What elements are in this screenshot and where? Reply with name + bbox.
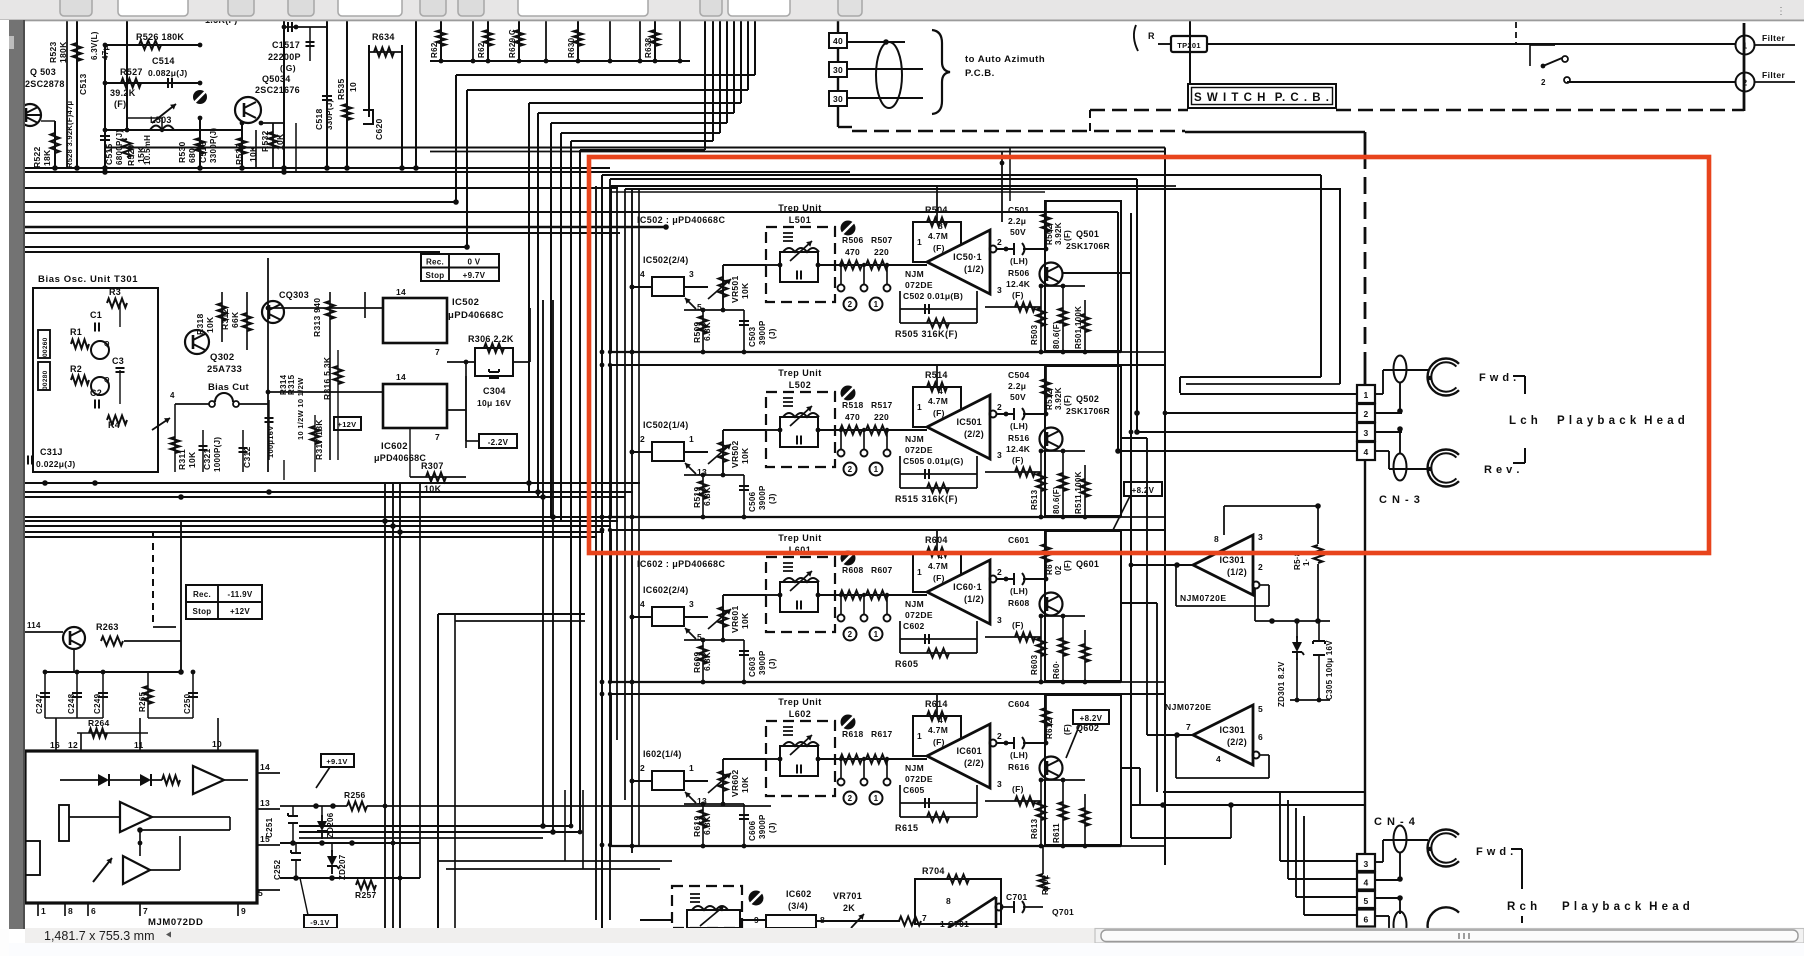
svg-text:6.8K: 6.8K (702, 651, 712, 671)
svg-text:8: 8 (68, 906, 73, 916)
svg-text:VR501: VR501 (730, 276, 740, 304)
svg-text:Q 503: Q 503 (30, 67, 56, 77)
svg-text:10μ 16V: 10μ 16V (477, 398, 511, 408)
svg-text:R2: R2 (70, 364, 82, 374)
svg-text:R523: R523 (48, 41, 58, 63)
svg-text:6.3V(L): 6.3V(L) (90, 31, 99, 60)
svg-text:IC502(2/4): IC502(2/4) (643, 255, 689, 265)
svg-text:3900P: 3900P (758, 814, 767, 839)
svg-text:(F): (F) (933, 737, 945, 747)
svg-text:C605: C605 (903, 785, 925, 795)
svg-text:R516: R516 (1008, 433, 1030, 443)
svg-text:7: 7 (143, 906, 148, 916)
svg-text:0.022μ(J): 0.022μ(J) (36, 459, 76, 469)
svg-text:R519: R519 (692, 486, 702, 508)
svg-text:3: 3 (1363, 859, 1368, 869)
svg-text:4: 4 (640, 599, 645, 609)
svg-text:-2.2V: -2.2V (488, 438, 509, 447)
svg-text:3300P(J): 3300P(J) (209, 128, 218, 163)
svg-text:R e v .: R e v . (1484, 464, 1520, 476)
svg-text:R608: R608 (842, 565, 864, 575)
svg-text:R62: R62 (477, 42, 486, 58)
svg-text:C304: C304 (483, 386, 506, 396)
svg-text:(1/2): (1/2) (964, 264, 984, 274)
svg-text:1: 1 (874, 630, 879, 639)
svg-text:R503: R503 (1030, 324, 1039, 345)
svg-text:Rec.: Rec. (426, 258, 444, 267)
svg-text:4: 4 (1363, 878, 1368, 888)
svg-text:2SC2878: 2SC2878 (25, 79, 65, 89)
svg-text:C513: C513 (78, 73, 88, 95)
svg-text:ZD301 8.2V: ZD301 8.2V (1277, 661, 1286, 707)
svg-text:30: 30 (833, 94, 843, 104)
svg-text:R607: R607 (871, 565, 893, 575)
svg-text:(J): (J) (768, 658, 777, 669)
svg-text:R616: R616 (1008, 762, 1030, 772)
svg-text:1: 1 (689, 434, 694, 444)
svg-text:R307: R307 (421, 461, 444, 471)
svg-text:50V: 50V (1010, 227, 1026, 237)
svg-text:14: 14 (260, 762, 270, 772)
svg-text:R263: R263 (96, 622, 119, 632)
svg-text:2: 2 (1258, 562, 1263, 572)
svg-text:R704: R704 (922, 866, 945, 876)
svg-text:R617: R617 (871, 729, 893, 739)
svg-text:30: 30 (833, 65, 843, 75)
svg-text:C249: C249 (93, 693, 102, 714)
svg-text:R618: R618 (842, 729, 864, 739)
svg-text:(2/2): (2/2) (964, 429, 984, 439)
svg-text:C501: C501 (1008, 205, 1030, 215)
svg-text:+9.1V: +9.1V (326, 757, 347, 766)
svg-text:R615: R615 (895, 823, 919, 833)
svg-text:3.92K: 3.92K (1054, 387, 1063, 410)
svg-text:R535: R535 (336, 78, 346, 100)
svg-text:(J): (J) (768, 822, 777, 833)
svg-text:IC602(2/4): IC602(2/4) (643, 585, 689, 595)
svg-text:(LH): (LH) (1010, 421, 1028, 431)
svg-text:R605: R605 (895, 659, 919, 669)
svg-text:C620: C620 (374, 118, 384, 140)
svg-text:220: 220 (874, 412, 889, 422)
svg-text:R518: R518 (842, 400, 864, 410)
svg-text:C305 100μ 16V: C305 100μ 16V (1325, 640, 1334, 700)
svg-text:3900P: 3900P (758, 650, 767, 675)
svg-text:40: 40 (833, 36, 843, 46)
svg-text:L503: L503 (150, 115, 172, 125)
svg-text:2SK1706R: 2SK1706R (1066, 406, 1110, 416)
svg-text:R517: R517 (871, 400, 893, 410)
svg-text:25A733: 25A733 (207, 364, 242, 375)
svg-text:(F): (F) (1063, 395, 1072, 406)
svg-text:IC301: IC301 (1219, 725, 1245, 735)
svg-text:4.7M: 4.7M (928, 561, 948, 571)
svg-text:(F): (F) (1012, 455, 1024, 465)
svg-text:1: 1 (917, 237, 922, 247)
svg-text:F w d .: F w d . (1479, 372, 1517, 384)
svg-text:10K: 10K (740, 612, 750, 629)
svg-text:2.2μ: 2.2μ (1008, 216, 1026, 226)
svg-text:R611: R611 (1052, 823, 1061, 843)
svg-text:072DE: 072DE (905, 774, 933, 784)
svg-text:22200P: 22200P (268, 52, 301, 62)
svg-text:C247: C247 (35, 693, 44, 714)
svg-text:1: 1 (689, 763, 694, 773)
svg-text:2: 2 (1363, 409, 1368, 419)
svg-text:R505 316K(F): R505 316K(F) (895, 329, 958, 339)
svg-text:2SK1706R: 2SK1706R (1066, 241, 1110, 251)
svg-text:(lG): (lG) (280, 63, 296, 73)
svg-text:C516: C516 (198, 141, 208, 163)
svg-text:R257: R257 (355, 890, 377, 900)
svg-text:R6: R6 (1045, 564, 1054, 575)
svg-text:+8.2V: +8.2V (1080, 714, 1103, 723)
svg-text:1: 1 (917, 402, 922, 412)
svg-text:(F): (F) (1063, 560, 1072, 571)
svg-text:C518: C518 (314, 108, 324, 130)
svg-text:2SC21676: 2SC21676 (255, 85, 300, 95)
svg-text:R522: R522 (32, 146, 42, 168)
svg-text:R312: R312 (220, 308, 230, 330)
svg-text:VR601: VR601 (730, 606, 740, 634)
svg-text:2: 2 (997, 731, 1002, 741)
svg-text:Q701: Q701 (1052, 907, 1074, 917)
svg-text:6: 6 (91, 906, 96, 916)
svg-text:7: 7 (1186, 722, 1191, 732)
svg-text:6.8K: 6.8K (702, 321, 712, 341)
svg-text:Filter: Filter (1762, 70, 1785, 80)
svg-text:10: 10 (212, 739, 222, 749)
svg-text:80.6(F): 80.6(F) (1052, 321, 1061, 349)
svg-text:7: 7 (922, 913, 927, 923)
svg-text:330P(J): 330P(J) (325, 99, 334, 130)
svg-text:80.6(F): 80.6(F) (1052, 486, 1061, 514)
svg-text:10K: 10K (205, 316, 215, 333)
svg-text:⋮: ⋮ (1776, 6, 1786, 17)
svg-text:2: 2 (848, 794, 853, 803)
svg-text:Q502: Q502 (1076, 394, 1099, 404)
svg-text:3.92K: 3.92K (1054, 222, 1063, 245)
svg-text:R630: R630 (567, 37, 576, 58)
svg-text:10 1/2W 10 1/2W: 10 1/2W 10 1/2W (296, 377, 305, 440)
svg-text:C N - 4: C N - 4 (1374, 816, 1416, 828)
svg-text:R1: R1 (70, 327, 82, 337)
svg-text:C504: C504 (1008, 370, 1030, 380)
svg-text:IC301: IC301 (1219, 555, 1245, 565)
svg-text:-9.1V: -9.1V (310, 918, 329, 927)
svg-text:6: 6 (1363, 915, 1368, 925)
svg-text:2.2μ: 2.2μ (1008, 381, 1026, 391)
svg-text:μPD40668C: μPD40668C (374, 453, 426, 463)
svg-text:3: 3 (689, 269, 694, 279)
svg-text:(LH): (LH) (1010, 750, 1028, 760)
svg-text:+12V: +12V (338, 420, 357, 429)
svg-text:IC501: IC501 (956, 417, 982, 427)
svg-text:Q: Q (104, 377, 110, 384)
svg-text:R506: R506 (842, 235, 864, 245)
svg-text:0 V: 0 V (468, 258, 481, 267)
svg-text:Trep Unit: Trep Unit (778, 368, 822, 378)
svg-text:8: 8 (946, 896, 951, 906)
svg-text:072DE: 072DE (905, 280, 933, 290)
svg-text:7: 7 (435, 432, 440, 442)
svg-text:Stop: Stop (426, 271, 445, 280)
svg-text:8: 8 (820, 915, 825, 925)
svg-text:R511 100K: R511 100K (1074, 471, 1083, 514)
svg-text:C31J: C31J (40, 447, 63, 457)
svg-text:C503: C503 (748, 326, 757, 347)
svg-text:C250: C250 (183, 693, 192, 714)
svg-text:(F): (F) (1063, 230, 1072, 241)
svg-text:14: 14 (396, 372, 406, 382)
svg-text:VR701: VR701 (833, 891, 862, 901)
svg-text:(F): (F) (933, 573, 945, 583)
svg-text:3900P: 3900P (758, 485, 767, 510)
svg-text:1: 1 (874, 794, 879, 803)
svg-text:1: 1 (917, 731, 922, 741)
svg-text:C603: C603 (748, 656, 757, 677)
svg-text:7: 7 (435, 347, 440, 357)
svg-text:072DE: 072DE (905, 610, 933, 620)
svg-text:(F): (F) (1012, 290, 1024, 300)
svg-text:4: 4 (1363, 447, 1368, 457)
svg-text:R612: R612 (1045, 718, 1054, 739)
svg-text:02: 02 (1054, 565, 1063, 575)
svg-text:L602: L602 (789, 709, 812, 719)
svg-text:Rec.: Rec. (193, 590, 211, 599)
svg-text:R512: R512 (1045, 389, 1054, 410)
svg-text:IC602: IC602 (381, 441, 408, 452)
svg-text:R526 180K: R526 180K (136, 32, 184, 42)
svg-text:C1: C1 (90, 310, 102, 320)
svg-text:+12V: +12V (230, 607, 250, 616)
svg-text:10K: 10K (740, 447, 750, 464)
svg-text:R609: R609 (692, 651, 702, 673)
svg-text:VR502: VR502 (730, 441, 740, 469)
svg-text:11: 11 (134, 740, 144, 750)
svg-text:R c h: R c h (1507, 901, 1538, 913)
svg-text:IC502(1/4): IC502(1/4) (643, 420, 689, 430)
svg-text:4.7M: 4.7M (928, 231, 948, 241)
svg-text:66K: 66K (230, 311, 240, 328)
svg-text:Q501: Q501 (1076, 229, 1099, 239)
svg-text:R638: R638 (644, 37, 653, 58)
svg-text:R316 5.3K: R316 5.3K (322, 356, 332, 400)
svg-text:47μ: 47μ (101, 45, 110, 60)
svg-text:NJM: NJM (905, 269, 924, 279)
svg-text:50V: 50V (1010, 392, 1026, 402)
svg-text:Q5034: Q5034 (262, 74, 291, 84)
svg-text:18K: 18K (42, 149, 52, 166)
svg-text:2: 2 (848, 630, 853, 639)
svg-text:8: 8 (938, 221, 943, 231)
svg-text:(1/2): (1/2) (1227, 567, 1247, 577)
svg-text:R256: R256 (344, 790, 366, 800)
svg-text:R507: R507 (871, 235, 893, 245)
svg-text:(F): (F) (933, 243, 945, 253)
svg-text:P l a y b a c k H e a d: P l a y b a c k H e a d (1557, 415, 1685, 427)
svg-text:(2/2): (2/2) (964, 758, 984, 768)
svg-text:470: 470 (845, 247, 860, 257)
svg-text:R608: R608 (1008, 598, 1030, 608)
svg-text:IC60·1: IC60·1 (953, 582, 982, 592)
svg-text:IC50·1: IC50·1 (953, 252, 982, 262)
svg-text:12.4K: 12.4K (1006, 279, 1031, 289)
svg-text:C502 0.01μ(B): C502 0.01μ(B) (903, 291, 963, 301)
svg-text:C701: C701 (1006, 892, 1028, 902)
svg-text:IC602 : μPD40668C: IC602 : μPD40668C (637, 559, 725, 569)
svg-text:(F): (F) (933, 408, 945, 418)
svg-text:C252: C252 (273, 859, 282, 880)
svg-text:(F): (F) (1012, 620, 1024, 630)
svg-text:0.082μ(J): 0.082μ(J) (148, 68, 188, 78)
svg-text:R313 940: R313 940 (312, 298, 322, 337)
svg-text:8: 8 (1214, 534, 1219, 544)
svg-text:220: 220 (874, 247, 889, 257)
svg-text:C251: C251 (265, 817, 274, 838)
svg-text:IC502: IC502 (452, 297, 479, 308)
svg-text:2: 2 (997, 567, 1002, 577)
svg-text:R513: R513 (1030, 489, 1039, 510)
svg-text:(LH): (LH) (1010, 256, 1028, 266)
svg-text:R501 100K: R501 100K (1074, 306, 1083, 349)
svg-text:1: 1 (917, 567, 922, 577)
svg-text:R527: R527 (120, 67, 143, 77)
svg-text:NJM0720E: NJM0720E (1165, 702, 1212, 712)
svg-text:μPD40668C: μPD40668C (448, 310, 504, 321)
svg-text:2: 2 (1541, 78, 1546, 87)
svg-text:470: 470 (845, 412, 860, 422)
svg-text:NJM: NJM (905, 763, 924, 773)
svg-text:10K: 10K (740, 282, 750, 299)
svg-text:Trep Unit: Trep Unit (778, 203, 822, 213)
svg-text:R509: R509 (692, 321, 702, 343)
svg-text:4: 4 (938, 386, 943, 396)
svg-text:R318: R318 (195, 313, 205, 335)
svg-text:3: 3 (997, 450, 1002, 460)
svg-text:4: 4 (938, 715, 943, 725)
svg-text:00280: 00280 (42, 370, 49, 390)
svg-text:1: 1 (874, 465, 879, 474)
svg-text:R: R (1148, 31, 1155, 41)
svg-text:C602: C602 (903, 621, 925, 631)
svg-text:2: 2 (997, 402, 1002, 412)
svg-text:R515 316K(F): R515 316K(F) (895, 494, 958, 504)
svg-text:2: 2 (640, 434, 645, 444)
svg-text:VR602: VR602 (730, 770, 740, 798)
svg-text:-11.9V: -11.9V (228, 590, 253, 599)
svg-text:IC502 : μPD40668C: IC502 : μPD40668C (637, 215, 725, 225)
svg-text:(F): (F) (1063, 724, 1072, 735)
svg-text:4: 4 (1216, 754, 1221, 764)
svg-text:R264: R264 (88, 718, 110, 728)
svg-text:P.C.B.: P.C.B. (965, 68, 995, 79)
svg-text:39.2K: 39.2K (110, 88, 136, 98)
svg-text:R506: R506 (1008, 268, 1030, 278)
svg-text:ZD207: ZD207 (338, 854, 347, 880)
svg-text:3: 3 (997, 779, 1002, 789)
svg-text:2: 2 (1743, 79, 1748, 88)
svg-text:(J): (J) (768, 328, 777, 339)
svg-text:10K: 10K (740, 776, 750, 793)
svg-text:Stop: Stop (193, 607, 212, 616)
svg-text:114: 114 (27, 621, 41, 630)
svg-text:6.8K: 6.8K (702, 486, 712, 506)
svg-text:R629 C: R629 C (508, 29, 517, 58)
svg-text:2: 2 (640, 763, 645, 773)
svg-text:+8.2V: +8.2V (1132, 486, 1155, 495)
svg-text:1: 1 (41, 906, 46, 916)
svg-text:15K: 15K (136, 146, 146, 163)
svg-text:L502: L502 (789, 380, 812, 390)
svg-text:Filter: Filter (1762, 33, 1785, 43)
svg-text:16: 16 (50, 740, 60, 750)
svg-text:(1/2): (1/2) (964, 594, 984, 604)
svg-text:6.8K: 6.8K (702, 815, 712, 835)
svg-text:CQ303: CQ303 (279, 290, 309, 300)
svg-text:4.7M: 4.7M (928, 725, 948, 735)
svg-text:R306 2.2K: R306 2.2K (468, 334, 514, 344)
svg-text:R603: R603 (1030, 654, 1039, 675)
svg-text:(F): (F) (114, 99, 126, 109)
svg-text:1: 1 (1363, 390, 1368, 400)
svg-text:F w d .: F w d . (1476, 846, 1514, 858)
svg-text:ZD206: ZD206 (326, 812, 335, 838)
svg-text:072DE: 072DE (905, 445, 933, 455)
svg-text:1,481.7 x 755.3 mm: 1,481.7 x 755.3 mm (44, 929, 154, 943)
svg-text:Q: Q (104, 341, 110, 348)
svg-text:C601: C601 (1008, 535, 1030, 545)
svg-text:5: 5 (1363, 896, 1368, 906)
svg-text:L c h: L c h (1509, 415, 1538, 427)
svg-text:2K: 2K (843, 903, 855, 913)
svg-text:5: 5 (1258, 704, 1263, 714)
svg-text:3: 3 (997, 285, 1002, 295)
svg-text:L501: L501 (789, 215, 812, 225)
svg-text:Q302: Q302 (210, 352, 234, 363)
svg-text:I602(1/4): I602(1/4) (643, 749, 682, 759)
svg-text:S W I T C H P. C . B .: S W I T C H P. C . B . (1194, 92, 1330, 104)
svg-text:3: 3 (689, 599, 694, 609)
svg-text:NJM: NJM (905, 599, 924, 609)
svg-text:IC601: IC601 (956, 746, 982, 756)
svg-text:R265: R265 (138, 691, 147, 712)
svg-text:C248: C248 (67, 693, 76, 714)
svg-text:NJM0720E: NJM0720E (1180, 593, 1227, 603)
svg-text:3: 3 (1363, 428, 1368, 438)
svg-text:10: 10 (348, 82, 358, 92)
svg-text:+9.7V: +9.7V (463, 271, 486, 280)
svg-text:1000P(J): 1000P(J) (213, 437, 222, 472)
svg-text:12.4K: 12.4K (1006, 444, 1031, 454)
svg-text:13: 13 (260, 798, 270, 808)
svg-text:9: 9 (241, 906, 246, 916)
svg-text:3900P: 3900P (758, 320, 767, 345)
svg-text:(2/2): (2/2) (1227, 737, 1247, 747)
svg-text:C506: C506 (748, 491, 757, 512)
svg-text:Trep Unit: Trep Unit (778, 697, 822, 707)
svg-text:C514: C514 (152, 56, 175, 66)
svg-text:Bias Osc. Unit T301: Bias Osc. Unit T301 (38, 274, 138, 285)
svg-text:NJM: NJM (905, 434, 924, 444)
svg-text:10K: 10K (187, 451, 197, 468)
svg-text:R530: R530 (177, 141, 187, 163)
svg-text:(J): (J) (768, 493, 777, 504)
svg-text:to Auto Azimuth: to Auto Azimuth (965, 54, 1045, 65)
svg-text:R634: R634 (372, 32, 395, 42)
svg-text:R62: R62 (430, 42, 439, 58)
svg-text:(F): (F) (1012, 784, 1024, 794)
